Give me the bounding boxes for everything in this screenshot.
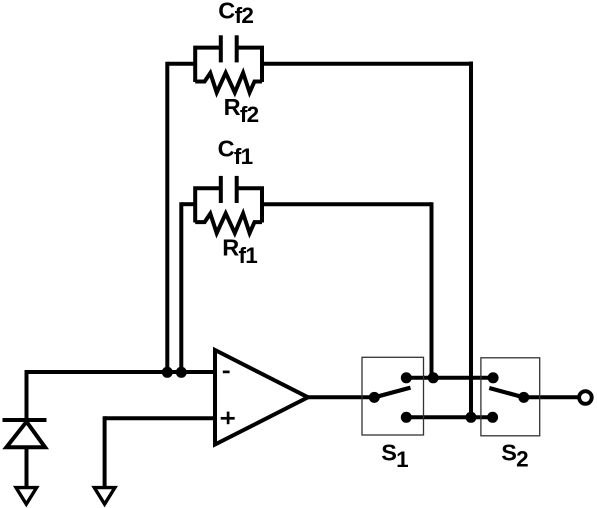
switch S2: arm bbox=[489, 388, 524, 397]
wire: Cf1 right horizontal to x=431.5 bbox=[260, 202, 432, 206]
wire: S2 common to output terminal bbox=[524, 395, 579, 399]
switch S1: top contact dot bbox=[401, 372, 412, 383]
resistor Rf1 bbox=[195, 213, 262, 233]
wire: noninverting input horizontal bbox=[105, 416, 213, 420]
resistor Rf2 bbox=[195, 73, 262, 93]
wire W2: Cf1 left vertical down to inverting node bbox=[179, 202, 183, 372]
wire: left vertical from inverting node to photodiode bbox=[25, 370, 29, 420]
op-amp U1 bbox=[215, 350, 308, 445]
switch S1: bottom contact dot bbox=[401, 412, 412, 423]
wire: noninverting ground vertical bbox=[103, 416, 107, 487]
node: junction dot W2 on inverting wire bbox=[176, 367, 187, 378]
switch S2: top-left contact dot bbox=[488, 372, 499, 383]
switch S1: common contact dot bbox=[369, 392, 380, 403]
capacitor Cf1 bbox=[195, 176, 262, 223]
switch S2: common contact dot bbox=[518, 392, 529, 403]
capacitor Cf2 bbox=[195, 35, 262, 82]
output terminal circle bbox=[579, 391, 592, 404]
wire: inverting input horizontal bbox=[27, 370, 214, 374]
wire W3: vertical from Cf1 down to top switch bus bbox=[430, 202, 434, 378]
op-amp minus sign bbox=[223, 371, 230, 374]
ground: below photodiode bbox=[16, 488, 37, 505]
switch S2: box bbox=[481, 358, 540, 436]
photodiode D1: triangle bbox=[6, 422, 45, 448]
wire: op-amp output to S1 bbox=[306, 395, 374, 399]
wire W1: Cf2 left vertical down to inverting node bbox=[165, 62, 169, 372]
op-amp plus sign bbox=[221, 412, 235, 425]
wire: top bus between S1 and S2 bbox=[406, 376, 493, 380]
node: junction dot W1 on inverting wire bbox=[162, 367, 173, 378]
ground: below noninverting input bbox=[94, 488, 115, 505]
wire: Cf2 right horizontal to x=471 bbox=[260, 62, 471, 66]
wire W4: vertical from Cf2 down to bottom switch bus bbox=[469, 62, 473, 418]
switch S1: box bbox=[362, 357, 424, 435]
wire: Cf2 left stub bbox=[167, 62, 197, 66]
switch S2: bottom-left contact dot bbox=[487, 412, 498, 423]
node: junction dot W4 on bottom bus bbox=[466, 412, 477, 423]
photodiode D1: cathode bar bbox=[3, 418, 47, 422]
wire: bottom bus between S1 and S2 bbox=[406, 415, 492, 419]
node: junction dot W3 on top bus bbox=[428, 372, 439, 383]
switch S1: arm bbox=[374, 388, 410, 398]
wire: photodiode to ground vertical bbox=[25, 446, 29, 487]
wire: Cf1 left stub bbox=[181, 202, 197, 206]
